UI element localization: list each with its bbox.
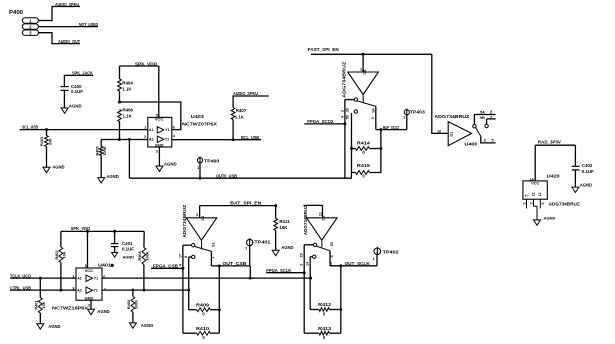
node switch contact S4A [354,98,357,101]
node FPGA_SCO2 junction [343,122,346,125]
svg-text:ADG734BRUZ: ADG734BRUZ [434,114,470,119]
U403 pin numbers [144,124,176,153]
svg-text:U420: U420 [547,174,561,179]
wire lever U400 [476,128,481,137]
wire R414 left [352,148,356,150]
svg-text:10: 10 [437,130,441,134]
wire FAST_SPI_EN [311,53,432,55]
svg-text:VCC: VCC [85,268,94,273]
node R407/Y2 junction [232,138,235,141]
U400 refdes [464,141,478,146]
wire TP402 stem [376,255,378,266]
wire R403 to ground [46,147,48,168]
svg-text:15: 15 [300,253,304,257]
svg-text:AGND: AGND [544,216,556,221]
U400A pin texts left [340,108,349,119]
svg-text:1: 1 [245,247,247,251]
svg-text:A2: A2 [149,138,154,142]
ground AGND below R401 [37,324,61,329]
node contact C2 [313,255,316,258]
U401 pin numbers [72,273,106,307]
svg-text:50: 50 [345,115,349,119]
svg-text:R408: R408 [137,251,142,261]
svg-text:D1: D1 [449,132,453,137]
svg-text:AGND: AGND [69,103,82,108]
S5A text [480,109,493,114]
U400B D1 label [201,216,205,221]
svg-text:10K: 10K [279,225,288,230]
svg-text:GND: GND [155,143,164,148]
svg-text:BAT_SPI_EN: BAT_SPI_EN [230,201,261,206]
wire Y1 out long [102,277,311,279]
wire contact B2 rail [188,257,190,290]
ground AGND below R400 [129,323,153,328]
wire Y2 out long [102,289,189,291]
svg-text:CTRL_USB: CTRL_USB [10,285,31,290]
wire SCLK rail lower [340,310,342,334]
wire BAT_SPI_EN [200,205,276,207]
node R401 tap [39,277,42,280]
wire contact C1 rail [303,245,305,273]
svg-text:TCLK_UCO: TCLK_UCO [10,273,32,278]
wire TP401 stem [249,246,251,266]
svg-text:13: 13 [538,193,542,197]
net label FPGA_SCLK [266,268,291,273]
wire lever B [195,247,212,252]
wire U420 gnd [527,206,541,220]
ground AGND below U420 [534,216,556,226]
wire U420 VCC [534,145,536,181]
node contact B1 [192,244,195,247]
U401 refdes [98,262,112,267]
svg-text:0.1UF: 0.1UF [71,89,83,94]
net label BAT_SPI_EN [230,201,261,206]
net label SPK_VDD [135,61,157,66]
wire SPK_VDD [120,65,159,67]
resistor R411 [274,219,290,231]
svg-text:U400: U400 [464,141,478,146]
test point TP402 [373,247,400,261]
wire R412 right [329,309,341,311]
svg-text:ADG734BRUZ: ADG734BRUZ [182,204,187,238]
net label NOT_USED [79,22,98,27]
wire Y2 output [172,139,261,141]
svg-text:U403: U403 [191,114,205,119]
wire GND stub U403 [158,147,160,166]
node switch contact S4B [354,110,357,113]
svg-text:3: 3 [530,203,534,205]
U400B part label ADG734BRUZ [182,204,187,238]
resistor R412 [318,302,332,316]
ground AGND below R403 [43,165,65,173]
svg-text:5B: 5B [480,116,485,120]
net label TCLK_UCO [10,273,32,278]
wire R400 column [132,290,134,296]
svg-text:10K: 10K [62,251,67,258]
node R400 tap [131,289,134,292]
wire C2 rail lower [309,278,311,309]
svg-text:FAST_SPI_EN: FAST_SPI_EN [308,47,339,52]
wire OUT_SCLK [330,265,377,267]
svg-text:AGND: AGND [97,309,109,314]
node FPGA_CSB junction [181,267,184,270]
svg-text:9: 9 [541,203,545,205]
wire FPGA_SCO2 rail [344,100,346,179]
net label OUT_SCLK [345,261,370,266]
wire buffer input [432,54,448,133]
capacitor C402 [572,163,594,174]
U400B pin texts [178,242,215,266]
wire TP400 stem [199,163,201,178]
net label OUT0_USB [216,173,237,178]
resistor R408 [137,248,149,265]
wire rail to R404 [119,66,121,79]
svg-text:R413: R413 [318,326,332,331]
U403 refdes [191,114,205,119]
U420 pin 16 [530,177,534,181]
svg-text:AGND: AGND [123,255,135,260]
wire OUT_CSB drop [249,266,251,278]
node wire1 end junction [309,277,312,280]
svg-text:AGND: AGND [281,245,293,250]
wire R401 to ground [39,313,41,324]
U400 part label [434,114,470,119]
U400C pin texts [300,242,335,266]
svg-text:AGND: AGND [48,324,60,329]
wire SPK_JACK [64,75,93,86]
svg-text:R415: R415 [357,163,371,168]
wire B2 rail lower [188,290,190,310]
ground AGND below C400 [61,103,81,113]
svg-text:3: 3 [300,264,304,266]
wire switch gate [362,54,364,72]
ground AGND below C402 [572,183,592,193]
svg-text:Y1: Y1 [165,128,169,132]
node OUT_CSB wire1 junction [249,277,252,280]
U400C part label ADG734BRUZ [303,205,308,236]
svg-text:R410: R410 [196,326,210,331]
U401 part number NC7WZ16P6X [52,306,88,311]
net label AUDIO_SPKU [55,2,79,7]
svg-text:1.1K: 1.1K [122,87,132,92]
ground AGND below C401 [112,253,135,260]
wire contact C1 stub [304,244,313,246]
svg-text:R404: R404 [122,81,133,86]
net label AUDIO_SPKU 2 [233,91,258,96]
wire switch lever A [357,101,376,107]
wire R415 right rail [370,130,381,173]
wire C401 top [114,231,116,243]
wire common rail C [329,251,331,266]
wire common rail A [375,106,377,129]
U400 common pins [484,138,495,143]
svg-text:R412: R412 [318,302,332,307]
svg-text:AGND: AGND [580,183,592,188]
svg-text:BCL_USB: BCL_USB [241,135,259,140]
node R412 right [339,308,342,311]
wire R407 bottom [232,120,234,140]
net label FPGA_CSB [153,263,178,268]
net label SPK_JACK [72,71,94,76]
resistor R402 [54,247,66,263]
svg-text:AGND: AGND [141,323,153,328]
svg-text:A1: A1 [77,277,82,281]
svg-text:S0: S0 [330,242,334,247]
svg-text:R409: R409 [196,302,210,307]
wire contact S5A stub [474,115,495,125]
wire BUF_SCO2 [376,129,407,131]
ground AGND below R405 [98,174,119,183]
switch C pin 11 [318,212,322,216]
svg-text:AGND: AGND [52,165,64,170]
node C401 tap [113,230,116,233]
svg-text:3: 3 [371,117,375,119]
svg-text:8: 8 [184,256,188,258]
svg-text:SCL_USB: SCL_USB [22,125,38,130]
wire C402 to ground [574,170,576,187]
svg-text:Y2: Y2 [93,289,97,293]
wire R414 right [370,148,381,150]
power block U420 body [523,181,547,199]
svg-text:R401: R401 [34,300,39,310]
wire R403 tap [46,130,48,136]
op-amp U401 body [76,268,102,301]
switch A pin 1 number [360,66,363,71]
svg-text:VCC: VCC [531,182,539,186]
resistor R406 [118,107,134,121]
svg-text:R405: R405 [95,146,100,156]
svg-text:R400: R400 [126,300,131,309]
analog switch U400C triangle [307,218,338,240]
wire contact B rail [351,113,353,149]
svg-text:Y2: Y2 [165,138,169,142]
resistor R403 [39,136,52,147]
S5B text [480,115,493,120]
node OUT_CSB junction [218,264,221,267]
wire R413 left [304,332,319,334]
wire R410 right [210,332,219,334]
wire VCC stub U403 [158,66,160,117]
svg-text:RAD_3P3V: RAD_3P3V [538,140,561,145]
wire R415 left [352,172,356,174]
U420 part label [549,201,580,206]
wire pin1 to AUDIO_SPKU [38,7,80,21]
wire common rail B [210,251,212,266]
wire R409 right [210,309,219,311]
wire R411 top [275,206,277,219]
svg-text:1: 1 [373,257,375,261]
wire R405 to ground [100,156,102,178]
svg-text:1.1K: 1.1K [235,114,245,119]
wire R413 right [329,332,341,334]
resistor R414 [356,140,371,155]
connector P400 pins 1-3 [22,18,38,36]
wire C401 to ground [114,247,116,253]
U400A part label ADG734BRUZ [341,61,346,98]
svg-text:C401: C401 [122,241,133,246]
svg-text:OUT0_USB: OUT0_USB [216,173,237,178]
wire contact B1 rail lower [182,268,184,333]
U400A D4 label [363,69,367,75]
svg-text:1: 1 [197,166,199,170]
wire contact C2 stub [310,256,312,258]
svg-text:5: 5 [525,195,529,197]
node R414 left [350,147,353,150]
wire OUT0_USB [129,177,351,179]
svg-text:P400: P400 [9,10,23,16]
wire R412 left [310,309,319,311]
wire Y1 feedback [120,102,181,130]
capacitor C400 [61,84,84,94]
wire R406 to A2 wire [119,122,121,140]
wire C1 rail lower [303,273,305,334]
wire TCLK_UCO [10,277,76,279]
svg-text:D1: D1 [201,216,205,221]
wire contact C2 rail [309,257,311,278]
wire contact S5B stub [487,119,496,124]
node contact C1 [313,243,316,246]
wire C402 top [574,145,576,166]
svg-text:10K: 10K [48,138,53,145]
svg-text:AGND: AGND [106,174,118,179]
wire switch C gate [303,205,322,217]
wire R415 hook to OUT wire [350,173,352,179]
resistor R413 [318,326,332,340]
analog switch U400A triangle [348,72,379,95]
node R411 tap [274,204,277,207]
wire contact B1 rail [182,245,184,268]
net label AUDIO_OUT [58,39,80,44]
svg-text:AUDIO_SPKU: AUDIO_SPKU [55,2,79,7]
svg-text:ADG734BRUZ: ADG734BRUZ [303,205,308,236]
svg-text:17: 17 [178,254,182,258]
wire FPGA_SCO2 [304,123,345,125]
net label SPK_VDD 2 [71,226,91,231]
wire R408 column top [143,231,145,247]
ground AGND below R411 [272,245,293,256]
svg-text:FPGA_CSB: FPGA_CSB [153,263,178,268]
node R408 junction [142,289,145,292]
wire R409 left [189,309,197,311]
wire TP403 stem [406,115,408,130]
wire throw A1 [345,99,354,101]
svg-text:100K: 100K [134,300,139,309]
svg-text:OUT_SCLK: OUT_SCLK [345,261,370,266]
wire R400 to ground [132,312,134,323]
wire U400 common [481,136,496,143]
resistor R405 [95,146,108,156]
svg-text:R411: R411 [279,219,290,224]
U403 part number NC7WZ07P6X [182,121,217,126]
svg-text:R402: R402 [54,250,59,260]
analog switch U400B triangle [186,218,217,240]
svg-text:AGND: AGND [164,161,177,166]
svg-text:10K: 10K [41,301,46,308]
wire CTRL_USB [10,289,76,291]
svg-text:TP401: TP401 [254,240,271,245]
svg-text:NC7WZ16P6X: NC7WZ16P6X [52,306,88,311]
svg-text:11: 11 [318,212,322,216]
svg-text:A2: A2 [77,289,82,293]
U403 pin 5 number [156,112,159,117]
svg-text:0.1UF: 0.1UF [582,169,594,174]
svg-text:U401: U401 [98,262,112,267]
svg-text:5A: 5A [480,111,485,115]
connector P400 refdes [9,10,23,16]
svg-text:1: 1 [403,115,405,119]
svg-text:ADG734BRUZ: ADG734BRUZ [549,201,580,206]
wire pin2 NOT_USED [38,26,98,28]
net label BCL_USB [241,135,259,140]
resistor R400 [126,297,138,313]
svg-text:30: 30 [345,108,349,112]
wire SCLK right rail [340,266,342,310]
wire switch B gate [199,206,201,218]
wire CSB rail lower [218,310,220,334]
svg-text:TP403: TP403 [410,110,426,115]
svg-text:A1: A1 [149,128,154,132]
wire SPK_VDD 2 [61,230,144,232]
net label RAD_3P3V [538,140,561,145]
svg-text:D1: D1 [322,216,326,221]
node contact B2 [192,255,195,258]
net label CTRL_USB [10,285,31,290]
node TP400 junction [199,177,202,180]
svg-text:2: 2 [523,203,527,205]
svg-text:OUT_CSB: OUT_CSB [222,261,246,266]
node R414 right [379,147,382,150]
svg-text:2: 2 [340,110,344,112]
wire A2 junction down [128,140,130,179]
svg-text:R414: R414 [357,140,371,145]
svg-text:NOT_USED: NOT_USED [79,22,98,27]
wire R410 left [183,332,197,334]
resistor R410 [196,326,210,340]
wire OUT_CSB [211,265,250,267]
wire R411 to ground [275,231,277,251]
node R404/R406/Y1 junction [118,101,121,104]
wire R408 to wire2 [143,265,145,291]
svg-text:TP402: TP402 [383,249,400,254]
svg-text:S1: S1 [212,242,216,247]
svg-text:1.1K: 1.1K [123,114,133,119]
node BUF junction [379,128,382,131]
svg-text:GND: GND [85,296,94,301]
wire FPGA_CSB [151,267,183,269]
U401 pin5 [85,264,87,268]
svg-text:VCC: VCC [155,117,164,122]
svg-text:TP400: TP400 [204,158,220,163]
node R406/A2 junction [118,138,121,141]
ground AGND below U403 [156,161,177,171]
wire U401 VCC stub [87,231,89,268]
buffer pin 10 [437,130,441,134]
node contact S5A [473,125,476,128]
node switch gate tap [362,53,365,56]
U420 pin stubs [523,199,545,206]
node R403 tap [45,128,48,131]
U400C D1 label [322,216,326,221]
wire contact B2 stub [189,256,192,258]
test point TP403 [403,109,425,120]
svg-text:FPGA_SCLK: FPGA_SCLK [266,268,291,273]
svg-text:C402: C402 [582,163,593,168]
resistor R407 [231,108,247,120]
net label OUT_CSB [222,261,246,266]
node OUT_SCLK junction [339,264,342,267]
wire R402 to wire2 [60,263,62,291]
svg-text:1: 1 [211,256,215,258]
